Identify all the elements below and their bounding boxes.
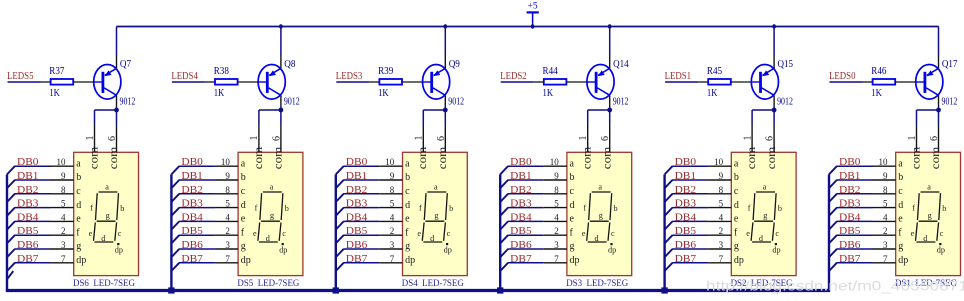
wire node to DS5 pin 6 <box>280 110 282 125</box>
pin wire DS2.8 <box>708 193 731 195</box>
bus entry DB2 (DS3) <box>500 194 508 202</box>
svg-text:b: b <box>76 172 81 183</box>
junction node Q7 collector / DS6 commons <box>114 108 119 113</box>
svg-text:6: 6 <box>436 136 447 141</box>
svg-text:g: g <box>763 211 767 220</box>
svg-text:1K: 1K <box>707 88 718 99</box>
bus entry DB2 (DS2) <box>665 194 673 202</box>
bus entry DB1 (DS3) <box>500 180 508 188</box>
pin wire DS5.6 (com) <box>280 125 282 153</box>
svg-text:1: 1 <box>907 136 918 141</box>
bus entry DB4 (DS6) <box>7 221 15 229</box>
decimal point dot (DS5) <box>282 243 284 245</box>
svg-text:c: c <box>447 229 451 238</box>
wire DB3 (DS2) <box>672 207 708 209</box>
svg-text:DB6: DB6 <box>675 240 697 251</box>
wire Q7 emitter to +5 rail <box>116 27 118 57</box>
wire LEDS3 to R39 <box>336 81 369 83</box>
pin wire Q17 emitter <box>938 56 940 68</box>
svg-text:7: 7 <box>390 254 395 264</box>
junction node Q17 collector / DS1 commons <box>936 108 941 113</box>
svg-text:1: 1 <box>742 136 753 141</box>
svg-text:com: com <box>106 146 120 169</box>
svg-text:c: c <box>282 229 286 238</box>
wire LEDS2 to R44 <box>501 81 534 83</box>
wire DB3 (DS4) <box>343 207 379 209</box>
pin wire R39.1 <box>369 81 379 83</box>
wire Q17 collector to node <box>938 107 940 111</box>
svg-text:e: e <box>582 229 586 238</box>
pin wire DS1.4 <box>873 220 896 222</box>
svg-text:DS6 LED-7SEG: DS6 LED-7SEG <box>73 279 135 289</box>
svg-text:a: a <box>734 158 739 169</box>
svg-text:DB4: DB4 <box>675 212 697 223</box>
bus entry DB5 (DS3) <box>500 235 508 243</box>
pin wire R39.2 to Q9 base <box>402 81 423 83</box>
bus entry DB3 (DS2) <box>665 208 673 216</box>
pin wire DS1.10 <box>873 165 896 167</box>
pin wire DS3.7 <box>544 262 567 264</box>
svg-text:b: b <box>614 204 618 213</box>
svg-text:c: c <box>405 186 410 197</box>
7-segment display DS4 body <box>403 152 468 275</box>
transistor Q15 PNP 9012 <box>751 65 778 100</box>
svg-text:a: a <box>270 183 274 192</box>
pin wire DS2.5 <box>708 207 731 209</box>
bus entry DB0 (DS1) <box>829 166 837 174</box>
pin wire DS1.2 <box>873 234 896 236</box>
svg-text:DB1: DB1 <box>839 171 861 182</box>
svg-text:a: a <box>76 158 81 169</box>
wire node to DS4 pin 6 <box>444 110 446 125</box>
svg-text:g: g <box>76 241 81 252</box>
bus entry DB7 (DS3) <box>500 263 508 271</box>
pin wire DS4.8 <box>379 193 402 195</box>
bus branch vertical (DS2) <box>663 174 665 290</box>
svg-text:DB2: DB2 <box>675 185 697 196</box>
svg-text:g: g <box>434 211 438 220</box>
svg-text:DB3: DB3 <box>839 199 861 210</box>
svg-text:e: e <box>734 214 739 225</box>
svg-text:dp: dp <box>570 255 580 266</box>
svg-text:9012: 9012 <box>284 96 300 107</box>
svg-text:dp: dp <box>241 255 251 266</box>
transistor Q9 PNP 9012 <box>423 65 450 100</box>
svg-text:R39: R39 <box>378 66 393 77</box>
decimal point dot (DS6) <box>117 243 119 245</box>
decimal point dot (DS2) <box>775 243 777 245</box>
svg-text:7: 7 <box>554 254 559 264</box>
resistor R44 body <box>544 79 567 85</box>
svg-text:9: 9 <box>390 171 395 181</box>
svg-text:g: g <box>734 241 739 252</box>
bus entry DB0 (DS5) <box>171 166 179 174</box>
pin wire DS3.5 <box>544 207 567 209</box>
svg-text:DB3: DB3 <box>675 199 697 210</box>
svg-text:f: f <box>912 204 915 213</box>
svg-text:e: e <box>241 214 246 225</box>
bus entry DB7 (DS4) <box>336 263 344 271</box>
wire DB6 (DS3) <box>508 248 544 250</box>
svg-text:LEDS0: LEDS0 <box>829 71 856 82</box>
svg-text:DB2: DB2 <box>181 185 203 196</box>
wire Q14 collector to node <box>609 107 611 111</box>
pin wire DS5.8 <box>215 193 238 195</box>
wire DB4 (DS1) <box>837 220 873 222</box>
pin wire DS4.5 <box>379 207 402 209</box>
wire DB1 (DS4) <box>343 179 379 181</box>
wire node to DS1 pin 1 <box>917 109 939 111</box>
svg-text:DB6: DB6 <box>17 240 39 251</box>
svg-text:b: b <box>734 172 739 183</box>
svg-text:DB0: DB0 <box>839 157 861 168</box>
svg-text:9012: 9012 <box>120 96 136 107</box>
bus entry DB4 (DS3) <box>500 221 508 229</box>
svg-text:4: 4 <box>554 212 559 222</box>
svg-text:c: c <box>76 186 81 197</box>
pin wire Q7 emitter <box>116 56 118 68</box>
wire Q8 collector to node <box>280 107 282 111</box>
bus branch vertical (DS4) <box>335 174 337 290</box>
pin wire DS6.10 <box>51 165 74 167</box>
svg-text:DB0: DB0 <box>675 157 697 168</box>
bus entry DB5 (DS5) <box>171 235 179 243</box>
svg-text:dp: dp <box>405 255 415 266</box>
svg-text:b: b <box>285 204 289 213</box>
svg-text:3: 3 <box>61 240 66 250</box>
pin wire DS6.3 <box>51 248 74 250</box>
digit segments drawing (DS3) <box>587 192 612 242</box>
pin wire DS6.8 <box>51 193 74 195</box>
decimal point dot (DS1) <box>939 243 941 245</box>
svg-text:LEDS2: LEDS2 <box>500 71 527 82</box>
svg-text:e: e <box>253 229 257 238</box>
pin wire DS4.6 (com) <box>444 125 446 153</box>
svg-text:c: c <box>570 186 575 197</box>
junction on rail at Q15 emitter <box>772 24 776 28</box>
wire DB3 (DS3) <box>508 207 544 209</box>
wire Q17 base lead <box>916 81 925 83</box>
bus junction at DS5 branch <box>168 287 174 293</box>
svg-text:DB3: DB3 <box>17 199 39 210</box>
pin wire DS3.9 <box>544 179 567 181</box>
wire DB7 (DS1) <box>837 262 873 264</box>
bus entry DB6 (DS2) <box>665 249 673 257</box>
svg-text:9012: 9012 <box>942 96 958 107</box>
svg-text:e: e <box>405 214 410 225</box>
svg-text:d: d <box>570 200 575 211</box>
wire node to DS2 pin 1 <box>752 109 774 111</box>
svg-text:com: com <box>580 146 594 169</box>
wire DB2 (DS3) <box>508 193 544 195</box>
svg-text:4: 4 <box>390 212 395 222</box>
svg-text:DB4: DB4 <box>17 212 39 223</box>
junction node Q15 collector / DS2 commons <box>772 108 777 113</box>
pin wire DS4.1 (com) <box>422 125 424 153</box>
svg-text:d: d <box>898 200 903 211</box>
pin wire DS4.3 <box>379 248 402 250</box>
svg-text:DB0: DB0 <box>510 157 532 168</box>
pin wire DS6.1 (com) <box>94 125 96 153</box>
pin wire R45.1 <box>698 81 708 83</box>
svg-text:c: c <box>898 186 903 197</box>
svg-text:3: 3 <box>390 240 395 250</box>
svg-text:DB6: DB6 <box>510 240 532 251</box>
svg-text:9012: 9012 <box>448 96 464 107</box>
wire Q8 base lead <box>258 81 267 83</box>
svg-text:com: com <box>435 146 449 169</box>
pin wire DS5.1 (com) <box>258 125 260 153</box>
wire DB0 (DS6) <box>15 165 51 167</box>
pin wire DS3.1 (com) <box>587 125 589 153</box>
svg-text:2: 2 <box>390 226 395 236</box>
resistor R38 body <box>215 79 238 85</box>
svg-text:4: 4 <box>61 212 66 222</box>
svg-text:b: b <box>942 204 946 213</box>
svg-text:10: 10 <box>221 157 231 167</box>
spare bus entry below DB7 <box>7 271 13 279</box>
wire LEDS1 to R45 <box>665 81 698 83</box>
7-segment display DS6 body <box>74 152 139 275</box>
wire DB5 (DS1) <box>837 234 873 236</box>
svg-text:b: b <box>449 204 453 213</box>
power symbol +5 <box>527 1 539 22</box>
wire DB3 (DS6) <box>15 207 51 209</box>
wire DB0 (DS3) <box>508 165 544 167</box>
svg-text:DB7: DB7 <box>675 254 697 265</box>
bus entry DB4 (DS5) <box>171 221 179 229</box>
pin wire DS4.2 <box>379 234 402 236</box>
svg-text:8: 8 <box>225 185 230 195</box>
bus entry DB0 (DS4) <box>336 166 344 174</box>
pin wire DS6.5 <box>51 207 74 209</box>
svg-text:1K: 1K <box>871 88 882 99</box>
svg-text:b: b <box>120 204 124 213</box>
svg-text:7: 7 <box>883 254 888 264</box>
svg-text:R38: R38 <box>214 66 229 77</box>
pin wire DS1.1 (com) <box>916 125 918 153</box>
bus entry DB1 (DS2) <box>665 180 673 188</box>
svg-text:DB4: DB4 <box>839 212 861 223</box>
svg-text:9012: 9012 <box>613 96 629 107</box>
pin wire DS1.3 <box>873 248 896 250</box>
wire DB2 (DS4) <box>343 193 379 195</box>
pin wire R46.1 <box>863 81 873 83</box>
wire node to DS3 pin 1 <box>588 109 610 111</box>
svg-text:9: 9 <box>554 171 559 181</box>
svg-text:1: 1 <box>414 136 425 141</box>
pin wire DS2.1 (com) <box>751 125 753 153</box>
svg-text:Q17: Q17 <box>942 59 958 70</box>
wire DB7 (DS3) <box>508 262 544 264</box>
pin wire DS5.2 <box>215 234 238 236</box>
svg-text:DB6: DB6 <box>346 240 368 251</box>
svg-text:a: a <box>241 158 246 169</box>
svg-text:6: 6 <box>929 136 940 141</box>
svg-text:dp: dp <box>76 255 86 266</box>
svg-text:d: d <box>734 200 739 211</box>
wire DB1 (DS5) <box>179 179 215 181</box>
bus entry DB3 (DS3) <box>500 208 508 216</box>
transistor Q17 PNP 9012 <box>916 65 943 100</box>
svg-text:d: d <box>405 200 410 211</box>
svg-text:6: 6 <box>271 136 282 141</box>
wire DB2 (DS1) <box>837 193 873 195</box>
pin wire DS6.9 <box>51 179 74 181</box>
svg-text:b: b <box>898 172 903 183</box>
wire DB0 (DS5) <box>179 165 215 167</box>
svg-text:LEDS4: LEDS4 <box>171 71 198 82</box>
svg-text:DB4: DB4 <box>181 212 203 223</box>
junction node Q8 collector / DS5 commons <box>279 108 284 113</box>
7-segment display DS3 body <box>567 152 632 275</box>
svg-text:3: 3 <box>883 240 888 250</box>
svg-text:b: b <box>778 204 782 213</box>
bus entry DB6 (DS6) <box>7 249 15 257</box>
pin wire DS1.5 <box>873 207 896 209</box>
bus entry DB5 (DS1) <box>829 235 837 243</box>
wire node to DS4 pin 1 <box>423 109 445 111</box>
wire LEDS5 to R37 <box>8 81 41 83</box>
pin wire DS2.4 <box>708 220 731 222</box>
svg-text:10: 10 <box>57 157 67 167</box>
bus entry DB0 (DS6) <box>7 166 15 174</box>
bus entry DB6 (DS4) <box>336 249 344 257</box>
svg-text:g: g <box>928 211 932 220</box>
digit segments drawing (DS5) <box>258 192 283 242</box>
pin wire R37.2 to Q7 base <box>73 81 94 83</box>
decimal point dot (DS3) <box>610 243 612 245</box>
svg-text:g: g <box>405 241 410 252</box>
data bus DB[0..7] horizontal run <box>6 289 830 292</box>
pin wire R45.2 to Q15 base <box>731 81 752 83</box>
svg-text:DB1: DB1 <box>17 171 39 182</box>
digit segments drawing (DS4) <box>422 192 447 242</box>
bus entry DB2 (DS6) <box>7 194 15 202</box>
svg-text:DB7: DB7 <box>181 254 203 265</box>
pin wire DS4.7 <box>379 262 402 264</box>
pin wire DS6.4 <box>51 220 74 222</box>
svg-text:com: com <box>86 146 100 169</box>
pin wire Q17 collector <box>938 95 940 106</box>
svg-text:3: 3 <box>719 240 724 250</box>
bus entry DB7 (DS6) <box>7 263 15 271</box>
bus entry DB6 (DS3) <box>500 249 508 257</box>
wire Q9 collector to node <box>444 107 446 111</box>
svg-text:dp: dp <box>734 255 744 266</box>
bus entry DB5 (DS2) <box>665 235 673 243</box>
wire +5 symbol to rail <box>532 21 534 27</box>
svg-text:1: 1 <box>85 136 96 141</box>
svg-text:f: f <box>748 204 751 213</box>
svg-text:d: d <box>595 234 599 243</box>
digit segments drawing (DS2) <box>751 192 776 242</box>
wire LEDS4 to R38 <box>172 81 205 83</box>
svg-text:2: 2 <box>883 226 888 236</box>
svg-text:DB0: DB0 <box>181 157 203 168</box>
decimal point dot (DS4) <box>446 243 448 245</box>
pin wire DS3.10 <box>544 165 567 167</box>
svg-text:DB2: DB2 <box>346 185 368 196</box>
wire DB5 (DS4) <box>343 234 379 236</box>
svg-text:DB5: DB5 <box>510 226 532 237</box>
pin wire DS3.6 (com) <box>609 125 611 153</box>
svg-text:DB5: DB5 <box>675 226 697 237</box>
svg-text:com: com <box>764 146 778 169</box>
svg-text:2: 2 <box>61 226 66 236</box>
transistor Q7 PNP 9012 <box>94 65 121 100</box>
pin wire DS3.2 <box>544 234 567 236</box>
svg-text:com: com <box>415 146 429 169</box>
pin wire Q7 collector <box>116 95 118 106</box>
svg-text:1K: 1K <box>378 88 389 99</box>
svg-text:com: com <box>599 146 613 169</box>
svg-text:http://blog.csdn.net/m0_465508: http://blog.csdn.net/m0_46550871 <box>706 278 964 294</box>
resistor R39 body <box>379 79 402 85</box>
svg-text:7: 7 <box>225 254 230 264</box>
svg-text:dp: dp <box>772 245 780 254</box>
svg-text:4: 4 <box>719 212 724 222</box>
svg-text:com: com <box>908 146 922 169</box>
svg-text:a: a <box>598 183 602 192</box>
svg-text:DB1: DB1 <box>510 171 532 182</box>
svg-text:9: 9 <box>719 171 724 181</box>
pin wire DS1.6 (com) <box>938 125 940 153</box>
svg-text:Q9: Q9 <box>449 59 460 70</box>
svg-text:R45: R45 <box>707 66 722 77</box>
svg-text:3: 3 <box>554 240 559 250</box>
wire Q17 emitter to +5 rail <box>938 27 940 57</box>
junction on rail at +5 <box>531 24 535 28</box>
svg-text:4: 4 <box>225 212 230 222</box>
svg-text:9: 9 <box>225 171 230 181</box>
bus entry DB5 (DS6) <box>7 235 15 243</box>
pin wire DS2.6 (com) <box>773 125 775 153</box>
svg-text:dp: dp <box>898 255 908 266</box>
pin wire DS3.3 <box>544 248 567 250</box>
svg-text:8: 8 <box>390 185 395 195</box>
svg-text:e: e <box>570 214 575 225</box>
bus entry DB1 (DS1) <box>829 180 837 188</box>
svg-text:Q7: Q7 <box>120 59 131 70</box>
svg-text:f: f <box>419 204 422 213</box>
pin wire DS2.7 <box>708 262 731 264</box>
svg-text:DB7: DB7 <box>510 254 532 265</box>
pin wire DS6.2 <box>51 234 74 236</box>
svg-text:2: 2 <box>719 226 724 236</box>
transistor Q14 PNP 9012 <box>587 65 614 100</box>
wire DB4 (DS3) <box>508 220 544 222</box>
svg-text:8: 8 <box>883 185 888 195</box>
pin wire DS6.6 (com) <box>116 125 118 153</box>
pin wire R46.2 to Q17 base <box>895 81 916 83</box>
pin wire DS2.9 <box>708 179 731 181</box>
digit segments drawing (DS1) <box>916 192 941 242</box>
bus entry DB1 (DS4) <box>336 180 344 188</box>
wire DB7 (DS6) <box>15 262 51 264</box>
wire Q9 base lead <box>423 81 432 83</box>
wire DB2 (DS6) <box>15 193 51 195</box>
wire DB3 (DS5) <box>179 207 215 209</box>
digit segments drawing (DS6) <box>94 192 119 242</box>
pin wire DS4.10 <box>379 165 402 167</box>
wire node to DS1 pin 6 <box>938 110 940 125</box>
svg-text:g: g <box>106 211 110 220</box>
pin wire DS6.7 <box>51 262 74 264</box>
svg-text:DB5: DB5 <box>346 226 368 237</box>
svg-text:a: a <box>570 158 575 169</box>
svg-text:LEDS1: LEDS1 <box>665 71 692 82</box>
